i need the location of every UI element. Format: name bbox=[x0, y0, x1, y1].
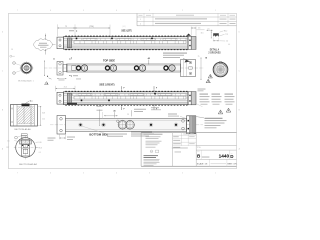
svg-text:SECTION A5-A5: SECTION A5-A5 bbox=[14, 128, 31, 131]
svg-text:SIDE 2 (LEFT): SIDE 2 (LEFT) bbox=[121, 30, 131, 33]
svg-text:2.0: 2.0 bbox=[226, 41, 228, 43]
svg-text:12.7: 12.7 bbox=[7, 147, 10, 149]
svg-text:5: 5 bbox=[83, 172, 84, 174]
svg-text:1: 1 bbox=[215, 10, 216, 12]
svg-text:31.8: 31.8 bbox=[42, 112, 45, 114]
svg-text:A2: A2 bbox=[148, 57, 150, 60]
svg-text:1: 1 bbox=[215, 172, 216, 174]
svg-text:5: 5 bbox=[83, 10, 84, 12]
svg-text:0.4: 0.4 bbox=[228, 44, 230, 46]
svg-text:1.6: 1.6 bbox=[8, 140, 10, 142]
svg-text:BOTTOM SIDE: BOTTOM SIDE bbox=[89, 132, 108, 136]
svg-text:2 GROOVES: 2 GROOVES bbox=[208, 52, 221, 54]
svg-text:2: 2 bbox=[182, 10, 183, 12]
svg-text:SIDE 1 (RIGHT): SIDE 1 (RIGHT) bbox=[99, 84, 114, 87]
svg-text:0.5: 0.5 bbox=[208, 28, 210, 30]
svg-text:TOP SIDE: TOP SIDE bbox=[103, 59, 115, 63]
svg-text:SIZE: SIZE bbox=[197, 151, 200, 153]
svg-text:6: 6 bbox=[50, 172, 51, 174]
svg-text:1.5: 1.5 bbox=[198, 28, 200, 30]
svg-text:(720): (720) bbox=[89, 26, 94, 28]
svg-text:C: C bbox=[239, 71, 240, 73]
svg-text:TITLE:: TITLE: bbox=[197, 147, 202, 149]
svg-text:R0.8: R0.8 bbox=[39, 148, 42, 150]
svg-text:75: 75 bbox=[65, 26, 67, 28]
svg-text:25.4: 25.4 bbox=[64, 87, 67, 89]
svg-text:6: 6 bbox=[50, 10, 51, 12]
svg-text:SECTION A2-A2: SECTION A2-A2 bbox=[19, 163, 37, 166]
svg-text:3: 3 bbox=[149, 10, 150, 12]
svg-text:1.5: 1.5 bbox=[11, 49, 13, 51]
svg-text:13.5: 13.5 bbox=[201, 32, 204, 34]
svg-text:7: 7 bbox=[17, 10, 18, 12]
svg-text:4: 4 bbox=[116, 10, 117, 12]
svg-text:4: 4 bbox=[116, 172, 117, 174]
svg-text:1440: 1440 bbox=[219, 154, 230, 159]
svg-text:0.05: 0.05 bbox=[39, 142, 42, 144]
svg-text:SCALE: 1:8: SCALE: 1:8 bbox=[197, 162, 208, 165]
svg-text:DETAIL A: DETAIL A bbox=[210, 48, 220, 51]
svg-text:3: 3 bbox=[149, 172, 150, 174]
svg-text:25.4: 25.4 bbox=[42, 118, 45, 120]
svg-text:6.3: 6.3 bbox=[39, 152, 41, 154]
svg-text:SHEET 1 OF 1: SHEET 1 OF 1 bbox=[227, 163, 237, 165]
svg-text:2: 2 bbox=[140, 23, 141, 25]
svg-text:D: D bbox=[239, 32, 240, 34]
svg-text:( 1:1 ): ( 1:1 ) bbox=[122, 26, 126, 28]
svg-text:1: 1 bbox=[140, 19, 141, 21]
svg-text:75: 75 bbox=[198, 56, 200, 58]
svg-text:2: 2 bbox=[182, 172, 183, 174]
svg-text:TYP: TYP bbox=[225, 34, 228, 36]
svg-text:7: 7 bbox=[17, 172, 18, 174]
svg-text:R0.2: R0.2 bbox=[224, 31, 227, 33]
svg-text:2X: 2X bbox=[127, 114, 129, 116]
